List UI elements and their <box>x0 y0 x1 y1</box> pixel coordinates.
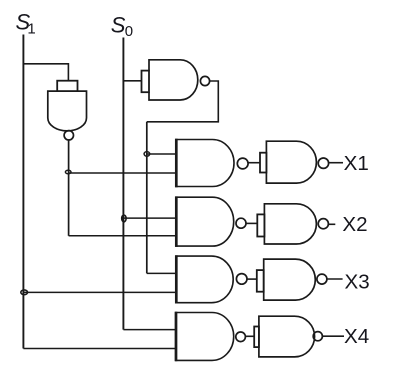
wire U3 to inverter U7 <box>248 162 260 164</box>
wire S1 to gate U6 lower input <box>23 348 176 350</box>
svg-text:1: 1 <box>27 21 35 38</box>
NAND gate U3 <box>176 139 248 188</box>
wire S1 vertical rail <box>22 35 24 349</box>
wire U5 to inverter U9 <box>247 278 257 280</box>
wire S1 to gate U5 lower input <box>23 291 176 293</box>
wire S0 branch to inverter U2 input <box>123 80 141 82</box>
wire U1 output to gate U3 lower input <box>69 172 176 174</box>
svg-text:X1: X1 <box>344 152 369 175</box>
NAND gate U4 <box>176 196 246 247</box>
wire U1 output rail down <box>68 140 70 236</box>
svg-text:0: 0 <box>125 23 133 40</box>
svg-text:X2: X2 <box>342 213 367 236</box>
wire U2 output to gate U3 upper input <box>147 153 176 155</box>
wire U4 to inverter U8 <box>246 222 257 224</box>
NAND gate U6 <box>176 312 246 362</box>
svg-text:X4: X4 <box>344 325 369 348</box>
wire U7 output <box>329 162 343 164</box>
wire S0 vertical rail <box>122 38 124 330</box>
NAND inverter U7 <box>260 141 329 183</box>
NAND inverter U2 (S0 inverter) <box>142 60 210 100</box>
svg-text:X3: X3 <box>345 270 370 293</box>
NAND inverter U8 <box>257 204 328 244</box>
label S1 <box>16 9 36 37</box>
wire U8 output <box>328 223 335 225</box>
wire U2 output to gate U5 upper input <box>147 272 176 274</box>
NAND inverter U9 <box>257 259 327 300</box>
node junction on U2 output rail <box>144 152 150 157</box>
wire U2 output rail down <box>146 122 148 274</box>
node junction on S0 rail <box>122 215 126 222</box>
wire U6 to inverter U10 <box>245 335 254 337</box>
wire S1 branch to inverter U1 input <box>23 64 68 81</box>
NAND inverter U1 (S1 inverter, vertical) <box>48 81 87 140</box>
wire U2 output elbow right-down-left <box>147 81 219 122</box>
wire S0 to gate U4 upper input <box>123 217 176 219</box>
NAND inverter U10 <box>254 316 322 357</box>
wire U10 output <box>322 335 344 337</box>
node junction on S1 rail <box>21 290 28 295</box>
node junction on U1 output <box>65 170 71 174</box>
svg-text:S: S <box>111 13 126 38</box>
wire U9 output <box>327 278 343 280</box>
label S0 <box>111 13 133 41</box>
wire S0 to gate U6 upper input <box>123 329 176 331</box>
wire U1 output to gate U4 lower input <box>69 235 176 237</box>
NAND gate U5 <box>176 255 247 303</box>
